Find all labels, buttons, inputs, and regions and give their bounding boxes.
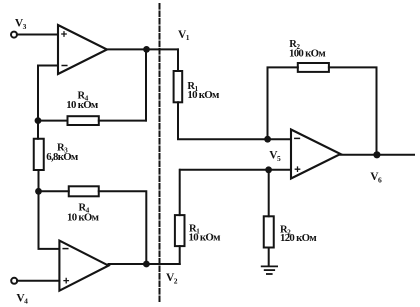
svg-text:V1: V1 [178, 29, 190, 42]
junction node V1 [143, 46, 150, 53]
wire [107, 48, 178, 50]
wire [178, 102, 291, 139]
wire [268, 248, 270, 266]
wire [17, 34, 58, 36]
wire [268, 67, 298, 139]
wire [38, 120, 68, 122]
svg-text:10 кОм: 10 кОм [67, 212, 100, 224]
label R2 120 kOm [280, 224, 317, 244]
wire [99, 191, 147, 264]
resistor R2 (feedback 100k) [298, 63, 329, 72]
wire [38, 66, 58, 121]
svg-text:6,8кОм: 6,8кОм [46, 151, 79, 163]
svg-text:10 кОм: 10 кОм [66, 99, 99, 111]
resistor R1 (bottom) [175, 215, 185, 246]
wire [109, 263, 180, 265]
op-amp U3 [291, 130, 341, 179]
label R2 100 kOm [289, 39, 326, 60]
wire [179, 246, 181, 264]
wire [180, 169, 291, 171]
label R1 10 kOm (bottom) [189, 223, 222, 243]
wire [39, 190, 69, 192]
input terminal V3 [11, 32, 17, 38]
wire [177, 49, 179, 71]
svg-text:V5: V5 [269, 150, 281, 163]
junction node V6 [373, 151, 380, 158]
wire [99, 120, 146, 122]
op-amp U1 [58, 25, 107, 74]
wire [37, 121, 39, 139]
junction inverting input node [264, 136, 271, 143]
op-amp U2 [59, 241, 108, 291]
resistor R2 (120k) [264, 216, 274, 247]
wire [38, 170, 40, 191]
wire [179, 170, 181, 215]
svg-text:V2: V2 [166, 272, 178, 285]
wire [329, 67, 377, 154]
junction node V2 [143, 261, 150, 268]
input terminal V4 [11, 278, 17, 284]
wire [145, 49, 147, 120]
resistor R4 (top) [68, 116, 99, 125]
label R3 6,8 kOm [46, 142, 79, 163]
wire [39, 191, 60, 249]
junction [35, 117, 42, 124]
svg-text:V4: V4 [16, 292, 28, 305]
resistor R1 (top) [174, 71, 183, 102]
wire [17, 280, 59, 282]
svg-text:120 кОм: 120 кОм [280, 232, 317, 244]
svg-text:10 кОм: 10 кОм [187, 89, 220, 101]
svg-text:V6: V6 [370, 171, 382, 184]
junction non-inverting input node [265, 166, 272, 173]
resistor R4 (bottom) [69, 186, 99, 196]
label R4 10 kOm (bottom) [67, 202, 100, 223]
wire [341, 154, 415, 156]
junction [35, 188, 42, 195]
svg-text:V3: V3 [15, 18, 27, 31]
ground [262, 266, 277, 274]
dashed boundary line [159, 4, 161, 301]
label R1 10 kOm (top) [187, 81, 220, 101]
label R4 10 kOm (top) [66, 90, 99, 111]
wire [268, 170, 270, 217]
svg-text:10 кОм: 10 кОм [189, 231, 222, 243]
resistor R3 [34, 139, 44, 170]
svg-text:100 кОм: 100 кОм [289, 47, 326, 59]
